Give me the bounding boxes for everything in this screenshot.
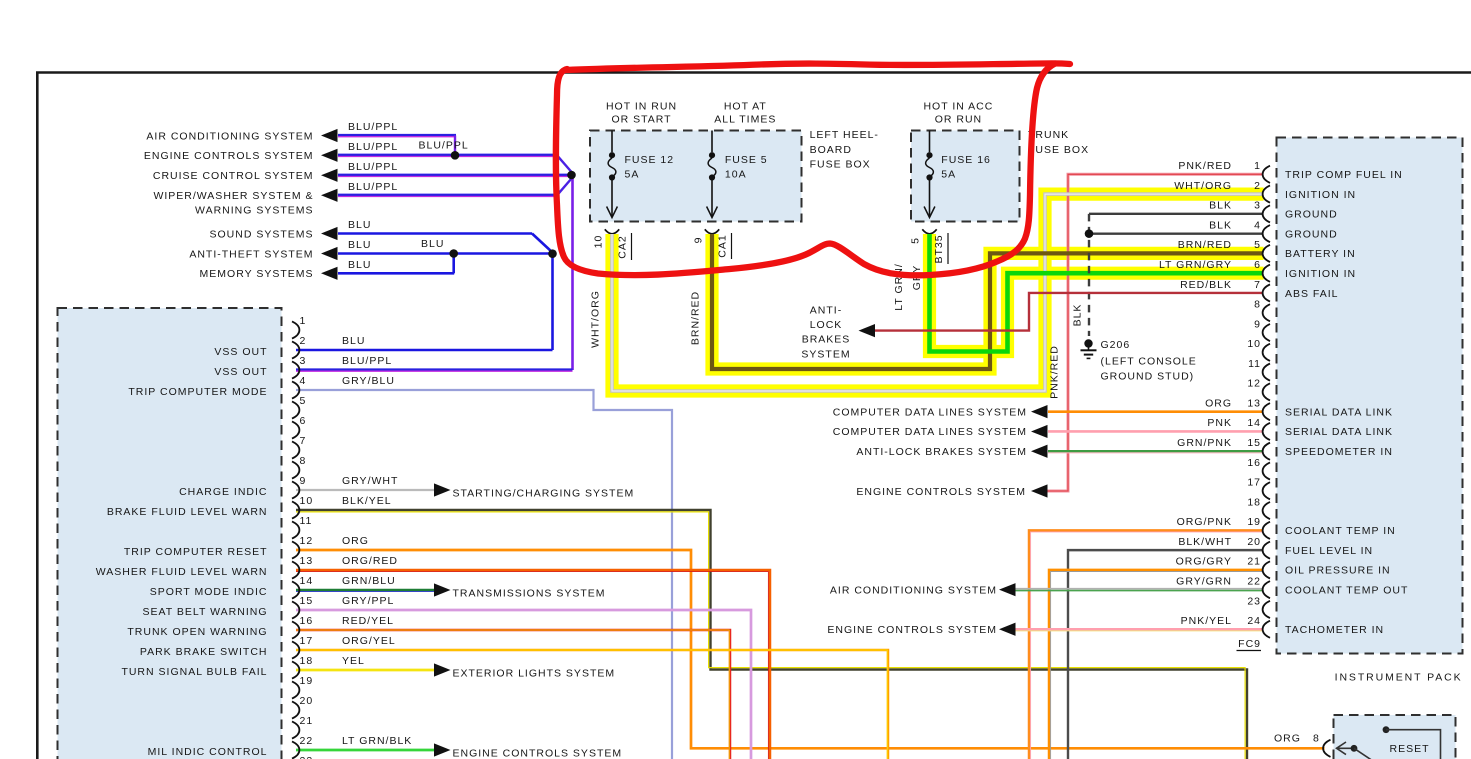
svg-text:YEL: YEL bbox=[342, 655, 365, 667]
svg-text:CRUISE CONTROL SYSTEM: CRUISE CONTROL SYSTEM bbox=[153, 170, 314, 182]
svg-text:AIR CONDITIONING SYSTEM: AIR CONDITIONING SYSTEM bbox=[830, 584, 997, 596]
svg-text:8: 8 bbox=[1254, 299, 1261, 311]
svg-text:GROUND STUD): GROUND STUD) bbox=[1101, 370, 1195, 382]
svg-text:9: 9 bbox=[1254, 318, 1261, 330]
svg-text:COMPUTER DATA LINES SYSTEM: COMPUTER DATA LINES SYSTEM bbox=[833, 426, 1027, 438]
svg-text:BLU: BLU bbox=[421, 238, 444, 250]
svg-text:BOARD: BOARD bbox=[810, 144, 852, 156]
svg-text:23: 23 bbox=[1247, 595, 1261, 607]
svg-text:LT GRN/GRY: LT GRN/GRY bbox=[1159, 259, 1232, 271]
svg-text:23: 23 bbox=[300, 755, 314, 759]
svg-text:IGNITION IN: IGNITION IN bbox=[1285, 189, 1356, 201]
svg-text:ABS FAIL: ABS FAIL bbox=[1285, 288, 1339, 300]
svg-text:GRN/PNK: GRN/PNK bbox=[1177, 437, 1232, 449]
svg-text:TRIP COMP FUEL IN: TRIP COMP FUEL IN bbox=[1285, 169, 1403, 181]
svg-text:ANTI-: ANTI- bbox=[810, 305, 842, 317]
svg-text:PNK/YEL: PNK/YEL bbox=[1181, 615, 1232, 627]
svg-text:10: 10 bbox=[593, 235, 605, 249]
svg-text:BLK: BLK bbox=[1209, 200, 1232, 212]
svg-text:14: 14 bbox=[300, 575, 314, 587]
svg-text:WHT/ORG: WHT/ORG bbox=[590, 290, 602, 348]
svg-text:BLU/PPL: BLU/PPL bbox=[348, 161, 398, 173]
svg-text:ANTI-LOCK BRAKES SYSTEM: ANTI-LOCK BRAKES SYSTEM bbox=[856, 446, 1027, 458]
svg-text:15: 15 bbox=[300, 595, 314, 607]
svg-text:21: 21 bbox=[1247, 556, 1261, 568]
svg-text:ORG/YEL: ORG/YEL bbox=[342, 635, 396, 647]
svg-text:7: 7 bbox=[300, 435, 307, 447]
svg-text:LT GRN/: LT GRN/ bbox=[893, 263, 905, 310]
svg-text:21: 21 bbox=[300, 715, 314, 727]
svg-text:10: 10 bbox=[1247, 338, 1261, 350]
svg-text:ENGINE CONTROLS SYSTEM: ENGINE CONTROLS SYSTEM bbox=[453, 748, 623, 759]
svg-text:SPORT MODE INDIC: SPORT MODE INDIC bbox=[150, 586, 268, 598]
svg-text:ORG/PNK: ORG/PNK bbox=[1177, 516, 1232, 528]
svg-text:3: 3 bbox=[300, 355, 307, 367]
svg-text:9: 9 bbox=[693, 237, 705, 244]
svg-text:PNK: PNK bbox=[1207, 417, 1232, 429]
svg-text:20: 20 bbox=[300, 695, 314, 707]
svg-text:13: 13 bbox=[1247, 397, 1261, 409]
svg-text:TRUNK OPEN WARNING: TRUNK OPEN WARNING bbox=[127, 626, 267, 638]
svg-text:BT35: BT35 bbox=[933, 234, 945, 263]
svg-text:STARTING/CHARGING SYSTEM: STARTING/CHARGING SYSTEM bbox=[453, 488, 635, 500]
svg-text:9: 9 bbox=[300, 475, 307, 487]
svg-text:FUSE BOX: FUSE BOX bbox=[810, 159, 871, 171]
svg-text:OIL PRESSURE IN: OIL PRESSURE IN bbox=[1285, 565, 1391, 577]
svg-text:22: 22 bbox=[1247, 575, 1261, 587]
svg-text:11: 11 bbox=[1248, 358, 1261, 370]
svg-text:RESET: RESET bbox=[1389, 743, 1429, 755]
svg-text:SYSTEM: SYSTEM bbox=[801, 348, 850, 360]
svg-text:EXTERIOR LIGHTS SYSTEM: EXTERIOR LIGHTS SYSTEM bbox=[453, 668, 616, 680]
svg-text:FUSE BOX: FUSE BOX bbox=[1028, 144, 1089, 156]
svg-text:COOLANT TEMP IN: COOLANT TEMP IN bbox=[1285, 525, 1396, 537]
svg-text:FUSE 5: FUSE 5 bbox=[725, 154, 768, 166]
svg-text:ANTI-THEFT SYSTEM: ANTI-THEFT SYSTEM bbox=[189, 248, 313, 260]
svg-text:OR START: OR START bbox=[611, 114, 671, 126]
svg-text:17: 17 bbox=[1247, 477, 1261, 489]
svg-text:6: 6 bbox=[300, 415, 307, 427]
svg-text:GROUND: GROUND bbox=[1285, 228, 1338, 240]
svg-text:5A: 5A bbox=[625, 169, 640, 181]
svg-text:GRY/BLU: GRY/BLU bbox=[342, 375, 395, 387]
svg-text:MEMORY SYSTEMS: MEMORY SYSTEMS bbox=[200, 268, 314, 280]
svg-text:TURN SIGNAL BULB FAIL: TURN SIGNAL BULB FAIL bbox=[121, 666, 267, 678]
svg-text:BLU/PPL: BLU/PPL bbox=[348, 141, 398, 153]
svg-text:14: 14 bbox=[1247, 417, 1261, 429]
svg-text:BLK: BLK bbox=[1072, 304, 1084, 327]
svg-text:24: 24 bbox=[1247, 615, 1261, 627]
svg-text:BLU: BLU bbox=[348, 239, 371, 251]
svg-text:12: 12 bbox=[1247, 378, 1261, 390]
svg-text:BLU/PPL: BLU/PPL bbox=[419, 139, 469, 151]
svg-text:BRN/RED: BRN/RED bbox=[1178, 239, 1232, 251]
svg-text:ORG/GRY: ORG/GRY bbox=[1176, 556, 1232, 568]
svg-text:AIR CONDITIONING SYSTEM: AIR CONDITIONING SYSTEM bbox=[146, 130, 313, 142]
svg-text:13: 13 bbox=[300, 555, 314, 567]
svg-text:22: 22 bbox=[300, 735, 314, 747]
svg-text:8: 8 bbox=[1313, 732, 1320, 744]
svg-text:BLU: BLU bbox=[348, 259, 371, 271]
svg-text:15: 15 bbox=[1247, 437, 1261, 449]
svg-text:19: 19 bbox=[1247, 516, 1261, 528]
svg-text:5: 5 bbox=[300, 395, 307, 407]
svg-text:8: 8 bbox=[300, 455, 307, 467]
svg-text:PNK/RED: PNK/RED bbox=[1049, 345, 1061, 399]
svg-text:BRAKES: BRAKES bbox=[802, 334, 851, 346]
svg-text:20: 20 bbox=[1247, 536, 1261, 548]
svg-text:COOLANT TEMP OUT: COOLANT TEMP OUT bbox=[1285, 584, 1408, 596]
svg-text:G206: G206 bbox=[1101, 339, 1131, 351]
svg-text:GRN/BLU: GRN/BLU bbox=[342, 575, 396, 587]
svg-text:TRANSMISSIONS SYSTEM: TRANSMISSIONS SYSTEM bbox=[453, 588, 606, 600]
svg-text:RED/BLK: RED/BLK bbox=[1180, 279, 1232, 291]
svg-text:2: 2 bbox=[1254, 180, 1261, 192]
svg-text:BLK/YEL: BLK/YEL bbox=[342, 495, 392, 507]
svg-text:10: 10 bbox=[300, 495, 314, 507]
svg-text:ENGINE CONTROLS SYSTEM: ENGINE CONTROLS SYSTEM bbox=[856, 486, 1026, 498]
svg-text:ORG/RED: ORG/RED bbox=[342, 555, 398, 567]
svg-text:VSS OUT: VSS OUT bbox=[214, 366, 267, 378]
svg-text:3: 3 bbox=[1254, 200, 1261, 212]
svg-text:VSS OUT: VSS OUT bbox=[214, 346, 267, 358]
svg-text:WASHER FLUID LEVEL WARN: WASHER FLUID LEVEL WARN bbox=[96, 566, 268, 578]
svg-text:CA2: CA2 bbox=[617, 235, 629, 258]
svg-text:INSTRUMENT PACK: INSTRUMENT PACK bbox=[1335, 672, 1463, 684]
svg-text:17: 17 bbox=[300, 635, 314, 647]
svg-text:LT GRN/BLK: LT GRN/BLK bbox=[342, 735, 412, 747]
svg-text:SOUND SYSTEMS: SOUND SYSTEMS bbox=[209, 228, 313, 240]
svg-text:16: 16 bbox=[300, 615, 314, 627]
svg-text:10A: 10A bbox=[725, 169, 747, 181]
svg-text:MIL INDIC CONTROL: MIL INDIC CONTROL bbox=[148, 746, 268, 758]
svg-text:BLK/WHT: BLK/WHT bbox=[1178, 536, 1232, 548]
svg-text:LOCK: LOCK bbox=[810, 319, 843, 331]
svg-text:HOT IN RUN: HOT IN RUN bbox=[606, 100, 677, 112]
svg-text:HOT AT: HOT AT bbox=[724, 100, 767, 112]
svg-text:LEFT HEEL-: LEFT HEEL- bbox=[810, 129, 879, 141]
svg-text:19: 19 bbox=[300, 675, 314, 687]
svg-text:BLU/PPL: BLU/PPL bbox=[348, 121, 398, 133]
svg-text:GRY/WHT: GRY/WHT bbox=[342, 475, 398, 487]
svg-text:BLU: BLU bbox=[342, 335, 365, 347]
svg-text:ORG: ORG bbox=[342, 535, 369, 547]
svg-text:1: 1 bbox=[300, 315, 307, 327]
svg-text:BLU/PPL: BLU/PPL bbox=[342, 355, 392, 367]
svg-text:WIPER/WASHER SYSTEM &: WIPER/WASHER SYSTEM & bbox=[153, 190, 313, 202]
svg-text:5: 5 bbox=[1254, 239, 1261, 251]
svg-text:WARNING SYSTEMS: WARNING SYSTEMS bbox=[195, 205, 313, 217]
svg-text:5: 5 bbox=[910, 237, 922, 244]
svg-text:WHT/ORG: WHT/ORG bbox=[1174, 180, 1232, 192]
svg-text:PNK/RED: PNK/RED bbox=[1178, 160, 1232, 172]
svg-text:RED/YEL: RED/YEL bbox=[342, 615, 394, 627]
svg-text:SEAT BELT WARNING: SEAT BELT WARNING bbox=[143, 606, 268, 618]
svg-text:COMPUTER DATA LINES SYSTEM: COMPUTER DATA LINES SYSTEM bbox=[833, 406, 1027, 418]
svg-text:5A: 5A bbox=[941, 169, 956, 181]
svg-text:16: 16 bbox=[1247, 457, 1261, 469]
svg-text:GRY/GRN: GRY/GRN bbox=[1176, 575, 1232, 587]
svg-text:TACHOMETER IN: TACHOMETER IN bbox=[1285, 624, 1384, 636]
svg-text:CHARGE INDIC: CHARGE INDIC bbox=[179, 486, 267, 498]
svg-text:BRN/RED: BRN/RED bbox=[690, 291, 702, 345]
svg-text:4: 4 bbox=[300, 375, 307, 387]
svg-text:SPEEDOMETER IN: SPEEDOMETER IN bbox=[1285, 446, 1393, 458]
svg-text:ENGINE CONTROLS SYSTEM: ENGINE CONTROLS SYSTEM bbox=[827, 624, 997, 636]
svg-text:PARK BRAKE SWITCH: PARK BRAKE SWITCH bbox=[140, 646, 268, 658]
svg-text:12: 12 bbox=[300, 535, 314, 547]
svg-text:FUSE 12: FUSE 12 bbox=[625, 154, 675, 166]
svg-text:BLK: BLK bbox=[1209, 219, 1232, 231]
svg-text:1: 1 bbox=[1254, 160, 1261, 172]
svg-text:SERIAL DATA LINK: SERIAL DATA LINK bbox=[1285, 406, 1393, 418]
svg-text:18: 18 bbox=[300, 655, 314, 667]
svg-text:BATTERY IN: BATTERY IN bbox=[1285, 248, 1356, 260]
svg-text:2: 2 bbox=[300, 335, 307, 347]
svg-text:FC9: FC9 bbox=[1238, 638, 1261, 650]
svg-text:TRIP COMPUTER MODE: TRIP COMPUTER MODE bbox=[128, 386, 267, 398]
svg-text:ENGINE CONTROLS SYSTEM: ENGINE CONTROLS SYSTEM bbox=[144, 150, 314, 162]
svg-text:11: 11 bbox=[300, 515, 313, 527]
svg-text:6: 6 bbox=[1254, 259, 1261, 271]
svg-text:BLU: BLU bbox=[348, 219, 371, 231]
svg-text:ORG: ORG bbox=[1274, 732, 1301, 744]
svg-text:ALL TIMES: ALL TIMES bbox=[714, 114, 776, 126]
svg-text:BLU/PPL: BLU/PPL bbox=[348, 181, 398, 193]
svg-text:GROUND: GROUND bbox=[1285, 209, 1338, 221]
svg-text:OR RUN: OR RUN bbox=[935, 114, 982, 126]
svg-text:IGNITION IN: IGNITION IN bbox=[1285, 268, 1356, 280]
svg-text:FUEL LEVEL IN: FUEL LEVEL IN bbox=[1285, 545, 1373, 557]
svg-text:SERIAL DATA LINK: SERIAL DATA LINK bbox=[1285, 426, 1393, 438]
svg-text:HOT IN ACC: HOT IN ACC bbox=[923, 100, 993, 112]
svg-text:4: 4 bbox=[1254, 219, 1261, 231]
svg-text:7: 7 bbox=[1254, 279, 1261, 291]
svg-text:CA1: CA1 bbox=[717, 234, 729, 257]
svg-text:ORG: ORG bbox=[1205, 397, 1232, 409]
svg-text:GRY/PPL: GRY/PPL bbox=[342, 595, 394, 607]
svg-text:(LEFT CONSOLE: (LEFT CONSOLE bbox=[1101, 355, 1197, 367]
svg-text:FUSE 16: FUSE 16 bbox=[941, 154, 991, 166]
svg-text:18: 18 bbox=[1247, 496, 1261, 508]
svg-text:TRIP COMPUTER RESET: TRIP COMPUTER RESET bbox=[124, 546, 268, 558]
svg-text:BRAKE FLUID LEVEL WARN: BRAKE FLUID LEVEL WARN bbox=[107, 506, 268, 518]
